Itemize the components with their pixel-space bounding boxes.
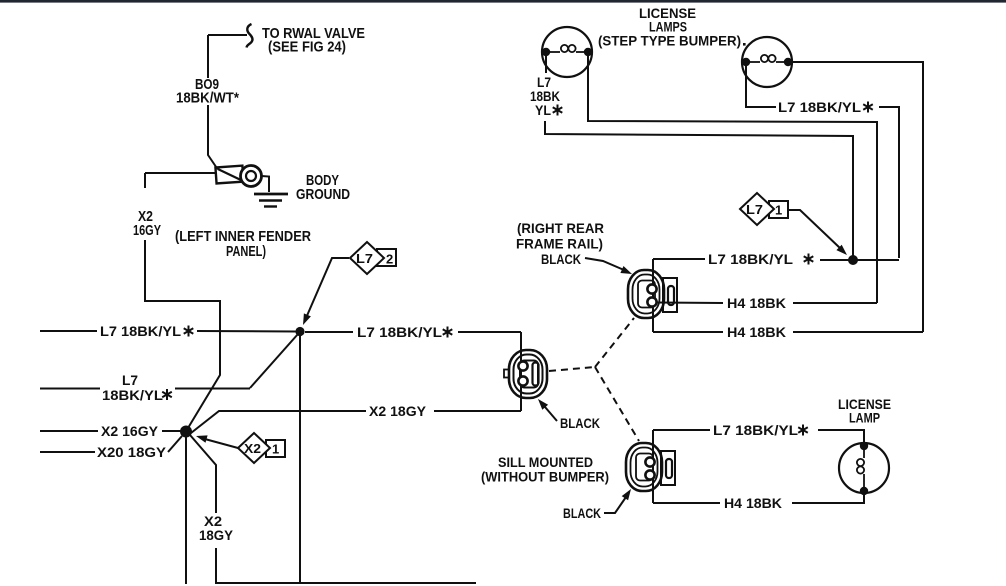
svg-text:L7 18BK/YL: L7 18BK/YL: [778, 99, 861, 115]
svg-text:(WITHOUT BUMPER): (WITHOUT BUMPER): [481, 469, 609, 485]
lamp circle bottom license lamp: [839, 443, 889, 493]
arrowhead BLACK C2: [538, 399, 548, 410]
wire BO9 vertical lower segment: [208, 105, 218, 169]
wire diagonal from junction B to X2 18GY drop: [190, 435, 216, 513]
svg-text:L7 18BK/YL: L7 18BK/YL: [100, 323, 181, 339]
dashed mating line Y point to connector C3: [595, 367, 639, 441]
wire diagonal junction B to X2 18GY row: [191, 411, 366, 433]
wire vertical from junction B to bottom edge: [185, 431, 187, 584]
svg-text:X2 16GY: X2 16GY: [101, 423, 159, 439]
wire L7 row at connector C1: [653, 258, 705, 260]
wire X20 18GY riser to junction B: [168, 436, 182, 452]
dashed mating line C2 to Y point: [549, 367, 595, 371]
svg-text:(STEP TYPE BUMPER): (STEP TYPE BUMPER): [598, 33, 741, 49]
svg-text:H4 18BK: H4 18BK: [727, 324, 786, 340]
wire vertical from junction A to bottom: [299, 331, 301, 583]
wire L7 18BK/YL* row 1 to junction A: [197, 330, 296, 333]
wire junction C to right vertical: [857, 259, 899, 261]
wire X2 16GY vertical lower run with corner: [145, 240, 220, 428]
svg-text:18BK/YL: 18BK/YL: [102, 387, 163, 403]
top page border bar: [0, 0, 1006, 3]
connector symbol L7-1 arrowhead: [836, 245, 847, 255]
dashed mating line Y point to connector C1: [595, 318, 634, 367]
svg-text:(SEE FIG 24): (SEE FIG 24): [268, 39, 346, 56]
wire H4 row 1 right segment: [793, 302, 877, 304]
svg-text:L7: L7: [746, 202, 763, 217]
wire from left lamp left terminal down: [545, 56, 547, 73]
connector symbol L7-2 leader wire: [306, 258, 349, 318]
svg-text:L7: L7: [122, 372, 138, 388]
ground symbol: [254, 194, 288, 207]
svg-text:X20 18GY: X20 18GY: [97, 444, 167, 460]
wire from junction A to mid label: [305, 331, 353, 333]
node A junction dot: [295, 327, 304, 336]
lamp terminal dots left lamp: [542, 48, 550, 56]
svg-text:BLACK: BLACK: [560, 415, 600, 431]
node B junction dot: [180, 426, 192, 438]
leader BLACK C3: [604, 497, 626, 513]
arrowhead BLACK C3: [622, 489, 631, 500]
connector symbol L7-2 arrowhead: [303, 313, 311, 325]
svg-text:BLACK: BLACK: [563, 505, 601, 521]
svg-text:H4 18BK: H4 18BK: [724, 495, 782, 511]
svg-text:18BK/WT*: 18BK/WT*: [176, 90, 239, 107]
svg-text:PANEL): PANEL): [226, 243, 266, 260]
lamp filament bottom license lamp: [857, 450, 864, 487]
wire diagonal junction A to L7 row 2: [250, 334, 298, 388]
wire H4 row from connector C3: [653, 502, 720, 504]
wire L7 row 2 right segment: [175, 388, 250, 390]
connector C1 (right rear frame rail): [628, 270, 677, 318]
wire X2 16GY vertical upper stub: [144, 173, 146, 188]
wire left lamp left terminal to junction C run: [545, 121, 853, 257]
connector symbol L7-1 box: [769, 201, 788, 218]
svg-text:1: 1: [775, 203, 782, 218]
wire H4 row 2 right segment: [793, 331, 923, 333]
connector symbol L7-1 leader wire: [788, 210, 841, 249]
wire right lamp L7 to vertical drop: [879, 107, 899, 258]
svg-text:X2: X2: [244, 441, 261, 456]
wire X20 18GY row left segment: [40, 451, 95, 453]
svg-text:FRAME RAIL): FRAME RAIL): [516, 236, 603, 252]
wire L7 row 2 left segment: [40, 388, 100, 390]
wire X2 16GY upper horizontal into ring terminal: [145, 172, 216, 174]
connector symbol L7-2 diamond: [350, 242, 384, 274]
svg-text:2: 2: [386, 252, 393, 267]
svg-text:L7 18BK/YL: L7 18BK/YL: [708, 251, 793, 267]
wire mid L7 row to connector C2: [458, 331, 521, 333]
node C junction dot: [848, 255, 858, 265]
connector symbol L7-2 box: [377, 249, 396, 266]
wire X2 16GY stub to junction B: [162, 430, 182, 432]
lamp circle right license lamp: [742, 37, 792, 87]
lamp terminal dots right lamp: [742, 58, 750, 66]
label BLACK (connector C2) leader: [545, 407, 557, 421]
svg-text:L7: L7: [356, 251, 373, 266]
connector symbol X2-1 leader wire: [203, 439, 238, 449]
wire X2 18GY drop lower segment with bottom run: [216, 548, 476, 583]
svg-text:BLACK: BLACK: [541, 251, 581, 267]
connector symbol L7-1 diamond: [740, 193, 774, 225]
lamp circle left license lamp: [542, 27, 592, 77]
arrowhead BLACK C1: [620, 266, 632, 274]
svg-text:GROUND: GROUND: [296, 186, 350, 203]
svg-text:X2 18GY: X2 18GY: [369, 403, 427, 419]
leader BLACK C1: [585, 258, 624, 270]
lamp terminal dots bottom lamp: [860, 442, 868, 450]
svg-text:L7 18BK/YL: L7 18BK/YL: [357, 324, 442, 340]
wire L7 row at connector C3: [653, 429, 710, 431]
connector C2 (sill harness side, left facing): [504, 350, 547, 398]
wire label to junction C: [820, 259, 849, 261]
wire X2 18GY row to connector C2: [434, 410, 521, 412]
wire right lamp left terminal down to label: [746, 66, 776, 107]
ring terminal at body ground: [215, 166, 243, 184]
wire break squiggle at RWAL valve: [247, 24, 253, 48]
connector symbol X2-1 box: [266, 440, 285, 457]
svg-text:L7 18BK/YL: L7 18BK/YL: [713, 422, 798, 438]
wire from eyelet to ground: [262, 176, 270, 192]
wire L7 pass-through of connector C1: [652, 259, 654, 332]
wire L7 pass-through of connector C3: [652, 430, 654, 503]
wire BO9 vertical upper segment: [207, 35, 209, 78]
wire C3 H4 row to bottom lamp: [792, 492, 864, 503]
svg-text:H4 18BK: H4 18BK: [727, 295, 786, 311]
wire L7 18BK/YL* row 1 left segment: [40, 330, 97, 332]
svg-text:16GY: 16GY: [133, 222, 161, 239]
ring terminal eyelet: [241, 166, 262, 187]
connector C3 (sill mounted): [626, 443, 675, 491]
connector symbol X2-1 arrowhead: [196, 435, 208, 442]
wire BO9 to RWAL valve (horizontal stub): [208, 34, 247, 36]
svg-text:18GY: 18GY: [199, 527, 234, 543]
svg-text:LAMP: LAMP: [849, 410, 880, 426]
wire left lamp right terminal to H4 row 1: [588, 56, 877, 303]
svg-text:1: 1: [272, 442, 279, 457]
lamp filament left license lamp: [550, 45, 584, 52]
connector symbol X2-1 diamond: [238, 433, 270, 463]
svg-text:YL: YL: [535, 102, 551, 118]
svg-text:(RIGHT REAR: (RIGHT REAR: [517, 220, 604, 236]
wire right lamp right terminal to H4 row 2: [792, 62, 923, 332]
wire X2 16GY row left segment: [40, 430, 98, 432]
wire H4 row 2 from connector C1: [653, 331, 723, 333]
wire C3 L7 row to bottom lamp: [818, 430, 864, 443]
lamp filament right license lamp: [750, 55, 784, 62]
wire L7 pass-through of connector C2: [520, 332, 522, 411]
wire H4 row 1 from connector C1: [657, 302, 723, 305]
